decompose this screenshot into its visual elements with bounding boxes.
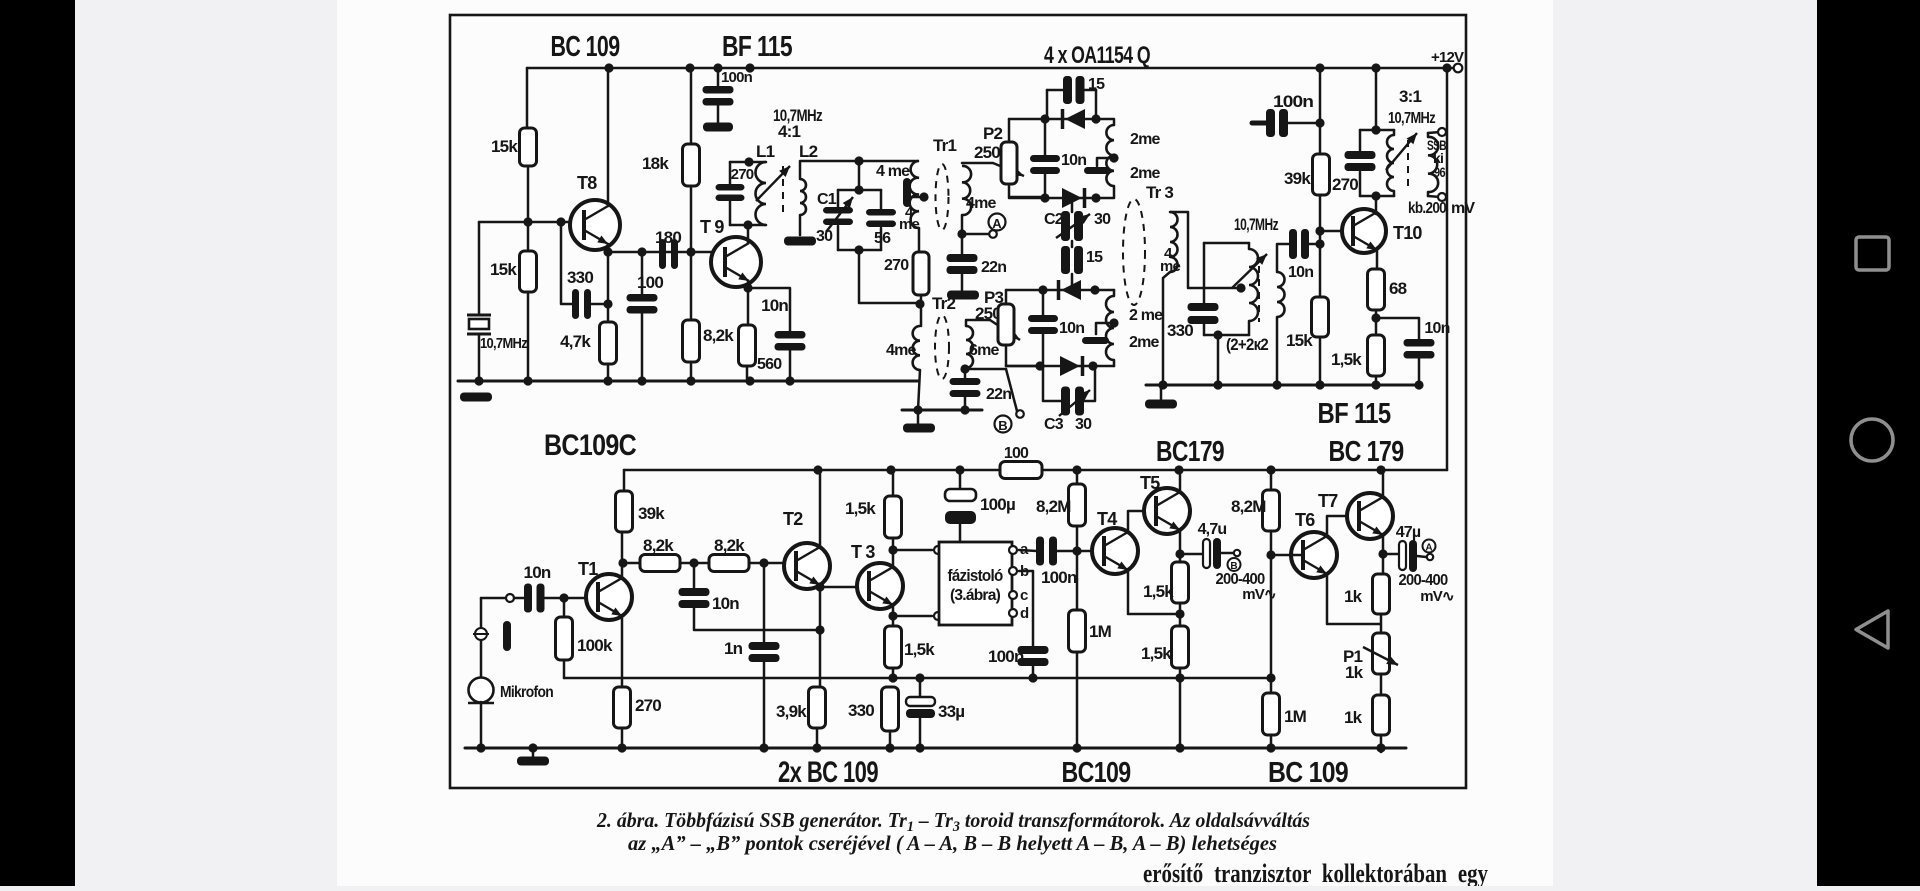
arrow C2 variable: [1056, 214, 1090, 238]
wire P3 bottom: [1006, 345, 1040, 366]
junction ground rail right x=1419: [1414, 380, 1423, 389]
wire 4,7u to marker: [1221, 552, 1234, 555]
capacitor 4,7u A electrolytic: [1399, 540, 1417, 572]
junction 330 cap: [603, 299, 612, 308]
resistor 560: [739, 325, 756, 366]
junction on supply rail x=690: [685, 63, 694, 72]
wire ground rail right: [1146, 384, 1420, 387]
wire terminal to 10n input: [514, 597, 526, 600]
wire 15k to 15k: [527, 166, 530, 251]
wire link top stub: [1071, 198, 1074, 212]
svg-text:1,5k: 1,5k: [1331, 350, 1362, 369]
wire L1 box bottom: [730, 224, 766, 227]
svg-text:Mikrofon: Mikrofon: [500, 684, 553, 701]
transistor T9: [711, 237, 761, 287]
wire T10 collector: [1375, 196, 1378, 214]
svg-text:10n: 10n: [761, 296, 788, 315]
svg-text:18k: 18k: [642, 154, 669, 173]
svg-text:8,2k: 8,2k: [643, 536, 674, 555]
wire to C3 left: [1043, 366, 1063, 401]
wire T5 to rail: [1179, 470, 1182, 493]
phone bezel left: [0, 0, 75, 886]
wire 1M to ground: [1076, 652, 1079, 748]
resistor 1,5k T3 emitter: [885, 626, 902, 668]
resistor 68: [1368, 269, 1385, 310]
microphone symbol: [468, 678, 494, 704]
wire T3 collector up: [892, 496, 895, 568]
wire to +12V terminal: [1447, 67, 1454, 70]
wire to box in1: [893, 549, 932, 552]
junction C1 box top: [854, 185, 863, 194]
diode D1: [1063, 109, 1086, 129]
transistor T10: [1342, 209, 1386, 253]
crystal X1 10,7MHz: [467, 315, 491, 334]
junction ground bottom x=1271: [1266, 743, 1275, 752]
svg-text:L2: L2: [799, 142, 818, 161]
junction ground bottom x=764: [759, 743, 768, 752]
wire SSB bottom: [1428, 196, 1440, 197]
junction ground bottom x=533: [528, 743, 537, 752]
svg-text:10,7MHz: 10,7MHz: [1234, 215, 1278, 234]
wire 100u to box: [959, 524, 962, 542]
junction output A tap: [1378, 549, 1387, 558]
junction ground bottom x=817: [812, 743, 821, 752]
svg-text:(2+2к2: (2+2к2: [1226, 335, 1268, 354]
svg-text:15k: 15k: [490, 260, 517, 279]
wire tank box bottom: [1204, 334, 1249, 337]
resistor 1,5k T5 upper: [1172, 562, 1189, 603]
phone nav bar right: [1817, 0, 1920, 886]
capacitor 15 link: [1061, 246, 1083, 274]
terminal input: [506, 594, 514, 602]
core L1-L2: [782, 166, 784, 214]
svg-text:(3.ábra): (3.ábra): [950, 587, 1000, 604]
svg-text:1,5k: 1,5k: [1141, 644, 1172, 663]
potentiometer P2: [1001, 142, 1017, 184]
svg-text:330: 330: [848, 701, 874, 720]
junction output B tap: [1175, 549, 1184, 558]
svg-text:10n: 10n: [524, 563, 551, 582]
svg-text:250: 250: [974, 143, 1000, 162]
capacitor 330 tank: [1188, 303, 1219, 324]
wire 2me bottom to ring: [1096, 186, 1114, 198]
svg-text:330: 330: [567, 268, 593, 287]
svg-text:33µ: 33µ: [938, 702, 964, 721]
resistor 15k right: [1312, 297, 1329, 337]
svg-text:200-400: 200-400: [1399, 572, 1449, 589]
svg-text:T1: T1: [578, 559, 598, 579]
junction 2me tap lower: [1109, 318, 1118, 327]
wire link bottom stub: [1071, 274, 1074, 290]
wire P2 top: [1008, 119, 1011, 142]
svg-text:4me: 4me: [966, 195, 997, 212]
junction rail2 x=960: [955, 465, 964, 474]
junction node B: [960, 364, 969, 373]
wire T7 to rail: [1382, 470, 1385, 498]
svg-text:BC109: BC109: [1062, 757, 1132, 789]
contact bar: [503, 621, 511, 651]
svg-text:BF 115: BF 115: [722, 31, 793, 63]
terminal box in2: [934, 612, 942, 620]
svg-text:4,7k: 4,7k: [560, 332, 591, 351]
svg-text:1M: 1M: [1284, 707, 1307, 726]
junction ring2 LL: [1035, 361, 1044, 370]
wiper arrow P2: [993, 163, 1024, 176]
wire T9 emitter down: [747, 281, 750, 325]
wire 10n to lower row: [1044, 174, 1047, 198]
junction ring2 UR: [1090, 285, 1099, 294]
junction divider: [686, 247, 695, 256]
svg-text:d: d: [1020, 605, 1029, 622]
transistor T4: [1092, 528, 1138, 574]
capacitor 100n right: [1266, 109, 1288, 137]
svg-text:kb.200: kb.200: [1408, 200, 1447, 217]
svg-text:T7: T7: [1318, 491, 1338, 511]
inductor tank primary: [1249, 249, 1258, 321]
transistor T6: [1291, 532, 1337, 578]
svg-text:Tr1: Tr1: [933, 136, 956, 155]
capacitor C3 variable: [1061, 387, 1084, 416]
inductor Tr3 secondary: [1170, 212, 1178, 272]
capacitor 100: [627, 294, 658, 314]
wire SSB lead top: [1427, 133, 1430, 137]
core tank: [1258, 266, 1260, 322]
wire 22n to ground stub: [961, 274, 964, 290]
resistor 39k second stage: [616, 491, 633, 532]
wire 100n to T4 base: [1057, 550, 1093, 553]
svg-text:2me: 2me: [1130, 165, 1161, 182]
wire 8,2M to 1M: [1076, 526, 1079, 610]
ground symbol bottom: [517, 757, 549, 766]
junction T6 base: [1266, 550, 1275, 559]
junction 10n right: [1371, 313, 1380, 322]
svg-text:30: 30: [1075, 416, 1092, 433]
wire tank box top: [1204, 242, 1249, 245]
svg-text:6me: 6me: [969, 342, 1000, 359]
wire 270 to Tr2: [920, 295, 923, 326]
wire 2me tap lower: [1096, 323, 1114, 334]
svg-text:330: 330: [1167, 321, 1193, 340]
junction 1n tap: [759, 558, 768, 567]
resistor 330 T3: [882, 687, 899, 731]
svg-text:10n: 10n: [1288, 264, 1313, 281]
svg-text:270: 270: [635, 696, 661, 715]
wire 10n to T1 base: [545, 597, 587, 600]
svg-text:BC 179: BC 179: [1329, 436, 1405, 468]
capacitor 15 upper: [1063, 76, 1085, 104]
junction C1 box bottom: [854, 245, 863, 254]
junction ground rail x=479: [474, 376, 483, 385]
wire coupling line T8-T9: [608, 251, 724, 254]
arrow P1 wiper: [1363, 647, 1398, 665]
wire mic to ground rail: [480, 702, 483, 748]
wire base node to T8 base: [479, 221, 583, 224]
capacitor 180: [659, 239, 678, 269]
wire L2 to ground stub: [799, 215, 802, 235]
junction emitter 10n tap: [743, 283, 752, 292]
capacitor 10n first stage: [775, 331, 806, 351]
junction ground rail right x=1320: [1315, 380, 1324, 389]
wire P1 to 1k lower: [1380, 674, 1383, 695]
nav icon triangle: [1856, 611, 1888, 648]
svg-text:C1: C1: [817, 191, 837, 208]
wire to 4,7u A: [1383, 553, 1399, 556]
wire 1,5k to bus: [892, 668, 895, 678]
junction T2 emitter: [815, 582, 824, 591]
wire +12V supply rail: [527, 67, 1447, 70]
node B marker: [995, 416, 1012, 434]
svg-text:100k: 100k: [577, 636, 613, 655]
svg-text:270: 270: [731, 166, 754, 183]
junction ground bottom x=920: [915, 743, 924, 752]
svg-text:30: 30: [816, 228, 833, 245]
wiper arrow P3: [990, 320, 1020, 340]
ground symbol right: [1145, 400, 1177, 409]
terminal +12V: [1454, 64, 1463, 73]
wire between 8,2k: [680, 562, 709, 565]
wire to 100 cap: [641, 252, 644, 294]
choke bar 4me: [903, 178, 911, 207]
capacitor 270 right: [1345, 151, 1376, 171]
junction ground rail x=528: [523, 376, 532, 385]
schematic border frame: [450, 15, 1466, 788]
wire Tr2 secondary bottom: [965, 368, 966, 369]
junction 10n T2: [815, 625, 824, 634]
wire to 10n right: [1376, 318, 1419, 339]
capacitor 1n: [749, 642, 780, 662]
junction ground bottom x=1180: [1175, 743, 1184, 752]
svg-text:56: 56: [874, 230, 891, 247]
wire L1 box left upper: [729, 162, 732, 184]
svg-text:39k: 39k: [638, 504, 665, 523]
wire to C1 box: [858, 161, 861, 190]
inductor L1: [756, 162, 766, 225]
junction ground rail x=642: [637, 376, 646, 385]
wire 4,7k to ground: [607, 364, 610, 381]
svg-text:100n: 100n: [721, 69, 753, 86]
junction ring2 LR: [1088, 361, 1097, 370]
svg-text:47µ: 47µ: [1396, 524, 1421, 541]
transistor T2: [784, 543, 830, 589]
junction ground bottom x=1381: [1376, 743, 1385, 752]
wire rail to 39k: [1319, 68, 1322, 154]
junction T3 collector box: [888, 545, 897, 554]
svg-text:15k: 15k: [491, 137, 518, 156]
wire to 22n lower: [964, 369, 967, 378]
capacitor 100n b: [1018, 646, 1049, 666]
wire 10n lower to row: [1042, 334, 1045, 366]
wiper wire P2 part1: [962, 162, 993, 165]
svg-text:1M: 1M: [1089, 622, 1112, 641]
svg-text:96: 96: [1434, 164, 1446, 180]
svg-text:Tr 3: Tr 3: [1146, 183, 1173, 202]
wire 68 to 1,5k: [1375, 310, 1378, 335]
resistor 1k lower: [1373, 695, 1390, 735]
junction on supply rail x=1376: [1371, 63, 1380, 72]
wire to 15 cap upper left: [1047, 89, 1065, 92]
svg-text:4:1: 4:1: [778, 122, 801, 141]
wire upper ring left drop: [1046, 90, 1049, 119]
svg-text:270: 270: [884, 257, 909, 274]
wire 18k to 8,2k: [690, 186, 693, 320]
wire link middle stub: [1071, 241, 1074, 247]
resistor 15k upper: [520, 128, 537, 166]
junction choke tap: [919, 192, 928, 201]
node A marker: [989, 214, 1006, 232]
svg-text:10n: 10n: [1059, 320, 1084, 337]
wire base to 330 cap: [561, 222, 574, 304]
svg-text:100: 100: [637, 273, 663, 292]
wire SSB lead bottom: [1427, 192, 1430, 196]
wire to 10n mid: [693, 563, 696, 588]
wire rail to 8,2M b: [1270, 470, 1273, 490]
terminal B1: [1016, 410, 1024, 418]
wire T1 emitter down: [621, 618, 624, 687]
wire Tr2 ground rail: [902, 409, 982, 412]
wire 2me lower top stub: [1113, 290, 1116, 296]
junction ring LL: [1040, 193, 1049, 202]
wire stub ground Tr2: [917, 410, 920, 424]
wire 100n stub: [1252, 121, 1266, 126]
capacitor 4,7u B electrolytic: [1203, 538, 1221, 569]
wire 8,2k to ground: [690, 362, 693, 381]
ground symbol left: [460, 393, 492, 402]
terminal box c: [1009, 591, 1017, 599]
junction tank bottom: [1213, 330, 1222, 339]
svg-text:15k: 15k: [1286, 331, 1313, 350]
resistor 15k lower: [520, 251, 537, 292]
wire to 10n upper ring: [1044, 119, 1047, 155]
svg-text:4,7u: 4,7u: [1198, 521, 1227, 538]
resistor 100k: [556, 617, 573, 660]
svg-text:1k: 1k: [1344, 587, 1363, 606]
svg-text:T 3: T 3: [851, 542, 875, 562]
wire T6 emitter to P1 node: [1327, 574, 1380, 624]
inductor Tr1 secondary: [962, 166, 971, 215]
wire C1 box to 270 node: [859, 250, 919, 303]
svg-text:2me: 2me: [1130, 131, 1161, 148]
svg-text:BF 115: BF 115: [1318, 398, 1392, 430]
wire T2 collector to rail: [819, 470, 822, 548]
svg-text:10n: 10n: [712, 594, 739, 613]
diode D3: [1059, 280, 1082, 300]
terminal A2: [1427, 554, 1433, 560]
inductor tank secondary: [1277, 272, 1285, 317]
transistor T3: [857, 563, 903, 609]
capacitor 10n coupling: [1289, 229, 1309, 259]
wire tank bottom to ground: [1217, 335, 1220, 385]
wire 10n to T2 emitter: [694, 608, 820, 630]
wire C1 box bottom edge: [838, 249, 881, 252]
resistor 8,2k b: [709, 555, 749, 572]
node L1 tank bottom: [743, 220, 752, 229]
wire 1M b to ground: [1270, 735, 1273, 748]
svg-text:22n: 22n: [981, 259, 1006, 276]
wire Tr3 to tank tap: [1170, 212, 1240, 288]
junction node A: [957, 229, 966, 238]
node L1 tank top: [744, 157, 753, 166]
wire to 2me winding top: [1096, 119, 1114, 125]
svg-text:180: 180: [655, 228, 681, 247]
svg-text:8,2k: 8,2k: [714, 536, 745, 555]
wire to 10n lower ring: [1042, 290, 1045, 315]
junction bus T3: [888, 673, 897, 682]
inductor 3:1 secondary SSB: [1428, 137, 1438, 192]
scanned page background: [337, 0, 1553, 886]
junction ring2 UL: [1038, 285, 1047, 294]
junction on supply rail x=750: [745, 63, 754, 72]
capacitor 100n a: [1036, 537, 1057, 566]
wire T5 emitter chain: [1179, 530, 1182, 562]
junction ring UL: [1040, 114, 1049, 123]
wire 15k to ground: [1319, 337, 1322, 385]
svg-text:BC179: BC179: [1156, 436, 1225, 468]
choke bar 2me upper: [1084, 167, 1111, 174]
transistor T5: [1144, 488, 1190, 534]
wire 1,5k to rail: [892, 470, 895, 496]
junction 100 cap top: [637, 247, 646, 256]
wire node B horizontal: [965, 368, 1006, 371]
core Tr2: [935, 315, 949, 379]
resistor 1,5k right: [1368, 335, 1385, 376]
svg-text:39k: 39k: [1284, 169, 1311, 188]
wire 33u to ground: [919, 718, 922, 748]
svg-text:C2: C2: [1044, 211, 1064, 228]
junction 22n ground: [960, 405, 969, 414]
resistor 1M b: [1263, 693, 1280, 735]
wire L1 box top: [730, 161, 766, 164]
wire 10n right to ground: [1418, 358, 1421, 385]
wire 22n lower to ground rail: [964, 397, 967, 410]
wire 1,5k to ground: [1375, 376, 1378, 385]
svg-text:T10: T10: [1393, 223, 1422, 243]
wire 8,2k b to T2 base: [749, 562, 784, 565]
junction T1 collector: [618, 558, 627, 567]
wire rail to 8,2M a: [1076, 470, 1079, 484]
junction 100n: [1315, 118, 1324, 127]
wire a to 100n: [1019, 550, 1037, 551]
wire upper ring top row: [1009, 118, 1096, 121]
arrow tank tuning: [1232, 254, 1267, 288]
core 3:1: [1407, 140, 1409, 188]
wire lower ring bottom row: [1006, 365, 1114, 368]
wire L2 top to Tr1: [800, 161, 918, 179]
wire T2 emitter down: [819, 585, 822, 687]
phase shifter box fazistolo: [939, 542, 1012, 625]
wire to T10 base: [1320, 230, 1353, 233]
arrow C1 variable: [826, 197, 853, 232]
terminal SSB top: [1438, 128, 1446, 136]
svg-text:8,2M: 8,2M: [1036, 497, 1071, 516]
junction base node T8: [523, 217, 532, 226]
wire crystal to ground rail: [478, 334, 481, 381]
junction ground bottom x=622: [617, 743, 626, 752]
junction T3 emitter box: [888, 611, 897, 620]
wire 10n to column: [1309, 243, 1320, 246]
svg-text:560: 560: [757, 356, 782, 373]
wire T3 emitter: [892, 605, 895, 626]
potentiometer P3: [998, 304, 1014, 345]
junction ring LR: [1091, 193, 1100, 202]
junction rail2 x=1179: [1174, 465, 1183, 474]
junction ground rail x=790: [785, 376, 794, 385]
junction 3:1 bottom: [1371, 191, 1380, 200]
wire 100n to ground stub: [717, 105, 720, 124]
wire b down: [1019, 571, 1033, 646]
svg-text:az „A” – „B” pontok cseréjével: az „A” – „B” pontok cseréjével ( A – A, …: [628, 831, 1277, 855]
svg-text:68: 68: [1389, 279, 1407, 298]
wire C1 branch lower: [837, 226, 840, 250]
